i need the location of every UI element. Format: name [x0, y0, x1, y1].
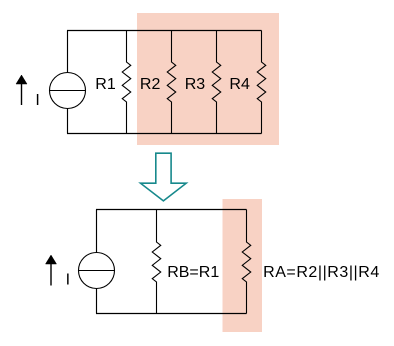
transformation arrow (downward, teal outline): [141, 153, 187, 201]
wire bottom rail (top circuit): [67, 133, 262, 135]
wire top rail (bottom circuit): [96, 209, 247, 211]
svg-text:R2: R2: [140, 76, 161, 93]
current direction arrow (bottom): [46, 255, 57, 286]
wire left column below current source I2: [96, 289, 98, 314]
svg-text:I: I: [35, 92, 39, 109]
current source I1: [50, 73, 86, 109]
resistor R3: [212, 31, 221, 134]
current direction arrow (top): [16, 75, 27, 105]
svg-text:RB=R1: RB=R1: [167, 264, 219, 281]
svg-text:R3: R3: [185, 76, 206, 93]
highlight region around R2,R3,R4: [137, 13, 279, 145]
resistor R1: [122, 31, 131, 134]
wire bottom rail (bottom circuit): [96, 313, 247, 315]
highlight region around RA: [223, 199, 263, 332]
wire top rail (top circuit): [67, 30, 262, 32]
resistor RB: [152, 210, 161, 314]
current source I2: [79, 253, 115, 289]
svg-text:RA=R2||R3||R4: RA=R2||R3||R4: [263, 264, 380, 281]
svg-text:R1: R1: [95, 76, 116, 93]
wire left column above current source I1: [67, 31, 69, 73]
resistor R2: [167, 31, 176, 134]
svg-text:R4: R4: [229, 76, 250, 93]
resistor RA: [242, 210, 251, 314]
wire left column below current source I1: [67, 109, 69, 134]
resistor R4: [257, 31, 266, 134]
wire left column above current source I2: [96, 210, 98, 253]
svg-text:I: I: [66, 272, 70, 289]
